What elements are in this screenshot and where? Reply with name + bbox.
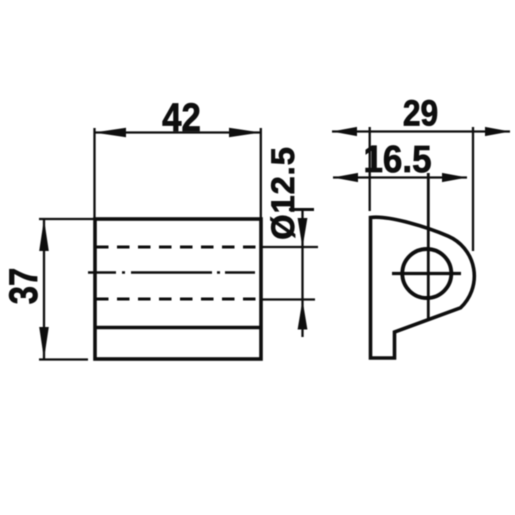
dimension 42 left arrow <box>94 128 126 138</box>
dimension 37 up arrow <box>39 219 49 251</box>
inner step line <box>96 326 260 329</box>
diameter 12.5 down arrow <box>298 218 308 248</box>
diameter 12.5 up arrow <box>298 300 308 330</box>
left view body outline <box>95 219 261 359</box>
svg-text:42: 42 <box>162 95 201 140</box>
diameter 12.5 bottom extension line <box>262 298 315 300</box>
dimension 16.5 right arrow <box>442 173 467 182</box>
right view bracket outline <box>371 217 475 358</box>
dimension 42 right arrow <box>229 128 261 138</box>
diameter 12.5 top extension line <box>262 246 318 248</box>
hole bottom edge (hidden/dashed) <box>96 298 260 301</box>
dimension 29 left arrow <box>332 127 357 136</box>
svg-text:37: 37 <box>1 268 46 304</box>
dimension 29 right arrow <box>485 127 510 136</box>
dimension 37 line <box>43 219 45 359</box>
dimension 37 top extension line <box>39 218 94 220</box>
dimension 37 bottom extension line <box>39 358 88 360</box>
dimension 42 right extension line <box>260 128 262 218</box>
diameter 12.5 top end bar <box>289 208 314 211</box>
dimension 16.5 line <box>333 176 467 178</box>
dimension 29 left extension line <box>369 127 371 211</box>
center line dash-dot <box>88 271 262 273</box>
dimension 37 down arrow <box>39 327 49 359</box>
hole circle <box>402 249 451 298</box>
dimension 42 left extension line <box>93 128 95 218</box>
hole vertical center line <box>427 173 430 321</box>
hole horizontal center line <box>392 272 461 275</box>
dimension 16.5 left arrow <box>333 173 358 182</box>
svg-text:16.5: 16.5 <box>363 138 431 181</box>
hole top edge (hidden/dashed) <box>96 246 260 249</box>
dimension 29 right extension line <box>472 127 474 251</box>
svg-text:Ø12.5: Ø12.5 <box>265 146 301 240</box>
diameter 12.5 dimension line <box>301 209 303 337</box>
svg-text:29: 29 <box>403 93 438 134</box>
dimension 42 line <box>94 131 261 133</box>
dimension 29 line <box>332 130 510 132</box>
